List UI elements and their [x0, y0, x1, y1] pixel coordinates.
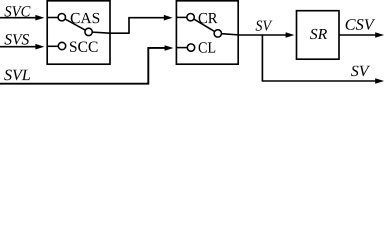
contact circle SCC	[58, 42, 65, 49]
arrowhead SVS into box1	[35, 44, 44, 50]
label CAS	[71, 13, 100, 23]
wire box2 output to SR input	[238, 34, 288, 36]
circuit block diagram: switch banks CAS/SCC and CR/CL feeding SR block	[0, 0, 385, 85]
arrowhead into box2 CR	[164, 15, 173, 21]
node SV output label (bottom right)	[351, 66, 370, 77]
node CSV label	[346, 19, 376, 30]
node SVS label	[5, 34, 30, 45]
switch blade box1: CAS contact to pole	[65, 19, 85, 30]
contact circle CAS	[58, 14, 65, 21]
wire box2 edge to CL contact	[176, 47, 187, 49]
wire riser to box2 CR input	[128, 17, 166, 19]
contact circle CL	[187, 44, 194, 51]
wire box1 edge to SCC contact	[47, 45, 58, 47]
switch box U2 (CR/CL selector)	[176, 1, 238, 64]
wire CSV output	[339, 34, 377, 36]
arrowhead SV into SR	[286, 32, 295, 38]
node SVL label	[4, 70, 30, 81]
wire SVL bottom run, riser and entry into box2	[0, 48, 167, 84]
arrowhead CSV output	[375, 32, 384, 38]
node SVC label	[5, 6, 31, 17]
switch box U1 (CAS/SCC selector)	[47, 1, 110, 64]
label SCC	[70, 42, 98, 53]
wire SVC input	[0, 17, 38, 19]
wire SVS input	[0, 46, 38, 48]
arrowhead SVC into box1	[35, 15, 44, 21]
switch blade box2: CR contact to pole	[194, 19, 215, 32]
wire box2 pole to right edge	[222, 34, 239, 35]
wire box1 pole to right edge and to riser	[92, 32, 129, 33]
wire box2 edge to CR contact	[176, 16, 187, 18]
pole circle box2	[214, 30, 221, 37]
label CR	[199, 13, 218, 23]
label SR	[310, 29, 327, 39]
contact circle CR	[187, 14, 194, 21]
pole circle box1	[85, 28, 92, 35]
arrowhead SV output right	[375, 78, 384, 84]
node SV label (between box2 and SR)	[256, 21, 273, 31]
label CL	[199, 42, 216, 53]
wire riser between boxes	[128, 18, 130, 34]
arrowhead SVL into box2	[165, 45, 174, 51]
wire SV branch down	[261, 35, 263, 81]
wire box1 edge to CAS contact	[47, 17, 58, 19]
wire SV branch bottom run	[262, 80, 377, 82]
block U3 SR	[297, 11, 340, 60]
